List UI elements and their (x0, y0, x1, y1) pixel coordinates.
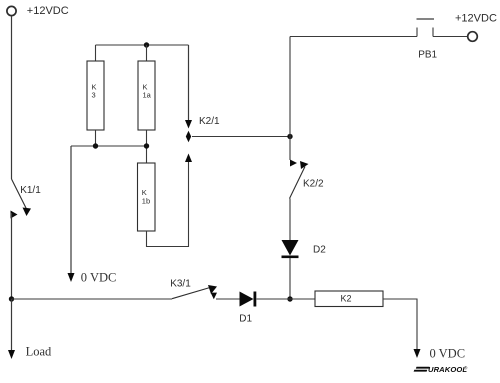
contact K2/1 (185, 45, 192, 142)
wire load drop (11, 299, 13, 352)
node junction left bus (9, 296, 14, 301)
logo Durakool (414, 365, 468, 375)
svg-text:3: 3 (92, 90, 96, 99)
svg-text:D1: D1 (239, 314, 252, 325)
diode D2 (282, 240, 299, 258)
wire bottom bus left (12, 298, 173, 300)
pushbutton PB1 (290, 19, 468, 37)
wire D2 to bottom junction (289, 258, 291, 299)
node dot mid bus K3 (93, 143, 98, 148)
svg-text:PB1: PB1 (418, 49, 437, 60)
svg-text:K1/1: K1/1 (20, 185, 41, 196)
terminal +12VDC left (7, 6, 16, 15)
node dot right rail (287, 134, 292, 139)
svg-text:K2/1: K2/1 (199, 116, 220, 127)
wire K1b loop (147, 161, 189, 247)
wire K3/1 to D1 (216, 298, 240, 300)
wire D1 to K2 (257, 298, 316, 300)
node dot top bus (144, 42, 149, 47)
wire top bus (96, 44, 189, 46)
svg-text:K2: K2 (341, 293, 352, 303)
wire K2 to 0VDC (383, 299, 417, 351)
node dot mid bus K1a (144, 143, 149, 148)
svg-text:D2: D2 (313, 244, 326, 255)
svg-text:+12VDC: +12VDC (455, 13, 497, 25)
relay coil K1b (138, 163, 156, 231)
svg-text:URAKOOL: URAKOOL (428, 365, 467, 374)
svg-text:Load: Load (26, 345, 52, 359)
svg-text:K3/1: K3/1 (170, 279, 191, 290)
svg-text:0 VDC: 0 VDC (430, 347, 466, 361)
diode D1 (240, 292, 257, 307)
terminal +12VDC right (468, 32, 478, 42)
svg-text:1a: 1a (143, 90, 152, 99)
wire left rail top (11, 16, 13, 179)
svg-text:0 VDC: 0 VDC (81, 271, 117, 285)
relay coil K1a (138, 45, 155, 164)
relay coil K2 (315, 291, 383, 307)
node dot bottom bus (287, 296, 292, 301)
contact K3/1 (172, 285, 217, 299)
svg-text:K2/2: K2/2 (303, 178, 324, 189)
relay coil K3 (87, 45, 104, 146)
wire K2/1 to right rail (192, 136, 290, 138)
wire K2/2 to D2 (289, 199, 291, 241)
svg-text:1b: 1b (142, 196, 150, 205)
wire mid bus (71, 145, 147, 147)
svg-text:+12VDC: +12VDC (27, 5, 69, 17)
wire left rail lower (11, 213, 13, 299)
contact K1/1 (11, 179, 32, 219)
wire right rail (289, 37, 291, 161)
wire 0VDC branch (70, 146, 72, 275)
contact K2/2 (290, 160, 309, 199)
